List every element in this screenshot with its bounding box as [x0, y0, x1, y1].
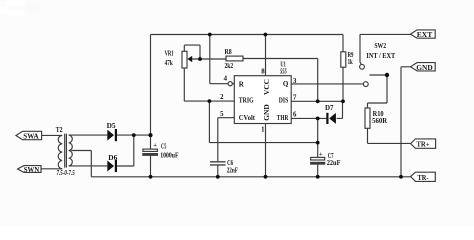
- svg-text:SW2: SW2: [374, 42, 386, 50]
- svg-text:7.5-0-7.5: 7.5-0-7.5: [57, 170, 76, 177]
- svg-text:6: 6: [293, 111, 297, 118]
- svg-text:Q: Q: [283, 80, 289, 88]
- svg-text:3: 3: [293, 78, 297, 85]
- svg-text:TR-: TR-: [418, 173, 429, 182]
- svg-text:D6: D6: [108, 154, 117, 162]
- svg-text:1k: 1k: [348, 58, 353, 66]
- svg-text:4: 4: [224, 76, 228, 83]
- svg-text:555: 555: [280, 68, 287, 76]
- svg-text:22nF: 22nF: [227, 167, 239, 175]
- svg-text:8: 8: [261, 68, 265, 75]
- svg-text:T2: T2: [56, 126, 63, 134]
- svg-text:2: 2: [220, 94, 224, 101]
- svg-text:CVolt: CVolt: [239, 114, 256, 122]
- svg-text:R8: R8: [225, 48, 233, 56]
- svg-text:+: +: [153, 142, 157, 149]
- svg-text:DIS: DIS: [279, 97, 289, 105]
- svg-text:INT / EXT: INT / EXT: [366, 52, 395, 60]
- svg-text:SWN: SWN: [24, 165, 40, 174]
- svg-text:TR+: TR+: [417, 139, 430, 148]
- svg-text:VCC: VCC: [262, 79, 271, 95]
- svg-text:5: 5: [220, 111, 224, 118]
- svg-text:GND: GND: [416, 63, 433, 72]
- svg-text:1000uF: 1000uF: [160, 151, 179, 159]
- svg-text:SWA: SWA: [23, 131, 39, 140]
- svg-text:EXT: EXT: [417, 30, 433, 39]
- svg-text:+: +: [319, 151, 323, 158]
- svg-text:TRIG: TRIG: [239, 97, 254, 105]
- svg-text:GND: GND: [262, 104, 271, 120]
- svg-text:7: 7: [293, 94, 297, 101]
- svg-text:D7: D7: [325, 104, 334, 112]
- svg-text:C5: C5: [161, 143, 167, 151]
- svg-text:560R: 560R: [372, 117, 388, 125]
- svg-text:2k2: 2k2: [225, 62, 234, 70]
- svg-text:22uF: 22uF: [327, 159, 341, 167]
- svg-text:THR: THR: [277, 114, 289, 122]
- svg-text:1: 1: [261, 127, 265, 134]
- svg-text:VR1: VR1: [165, 49, 174, 57]
- svg-text:47k: 47k: [165, 59, 173, 67]
- svg-text:D5: D5: [107, 122, 116, 130]
